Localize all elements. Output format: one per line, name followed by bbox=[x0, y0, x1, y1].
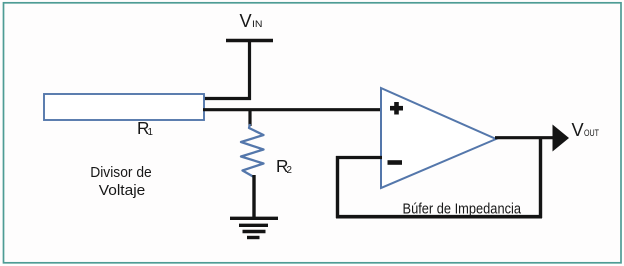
svg-text:V: V bbox=[240, 11, 253, 31]
wire - input bbox=[336, 156, 382, 159]
label Divisor de Voltaje bbox=[90, 164, 152, 199]
wire op-amp output bbox=[495, 136, 553, 139]
resistor R2 zigzag bbox=[241, 124, 264, 177]
power supply VIN bar bbox=[226, 39, 273, 43]
label R1 bbox=[137, 118, 153, 138]
node VIN label bbox=[240, 11, 263, 31]
wire R2 to ground bbox=[252, 175, 255, 218]
op-amp U1 bbox=[381, 88, 496, 188]
svg-text:1: 1 bbox=[148, 127, 153, 138]
node VOUT label bbox=[572, 120, 600, 140]
wire main rail to op-amp + input bbox=[203, 108, 381, 111]
op-amp - input symbol bbox=[388, 160, 403, 165]
wire feedback bottom bbox=[336, 215, 542, 219]
wire feedback left vertical bbox=[336, 156, 339, 218]
svg-text:2: 2 bbox=[287, 165, 292, 176]
svg-text:IN: IN bbox=[252, 19, 263, 29]
svg-text:Búfer de Impedancia: Búfer de Impedancia bbox=[403, 202, 522, 218]
wire VIN vertical bbox=[248, 41, 251, 101]
svg-text:OUT: OUT bbox=[584, 128, 599, 138]
ground bbox=[230, 218, 278, 237]
op-amp + input symbol bbox=[390, 102, 403, 115]
resistor R1 bbox=[44, 94, 204, 120]
svg-text:Divisor de: Divisor de bbox=[90, 164, 152, 181]
wire feedback right vertical bbox=[539, 138, 542, 219]
wire junction down to R2 bbox=[248, 109, 251, 126]
label R2 bbox=[276, 156, 292, 176]
svg-text:V: V bbox=[572, 120, 585, 140]
svg-text:Voltaje: Voltaje bbox=[99, 182, 146, 199]
wire R1 top output to VIN bbox=[203, 97, 251, 100]
arrow VOUT bbox=[553, 125, 570, 152]
